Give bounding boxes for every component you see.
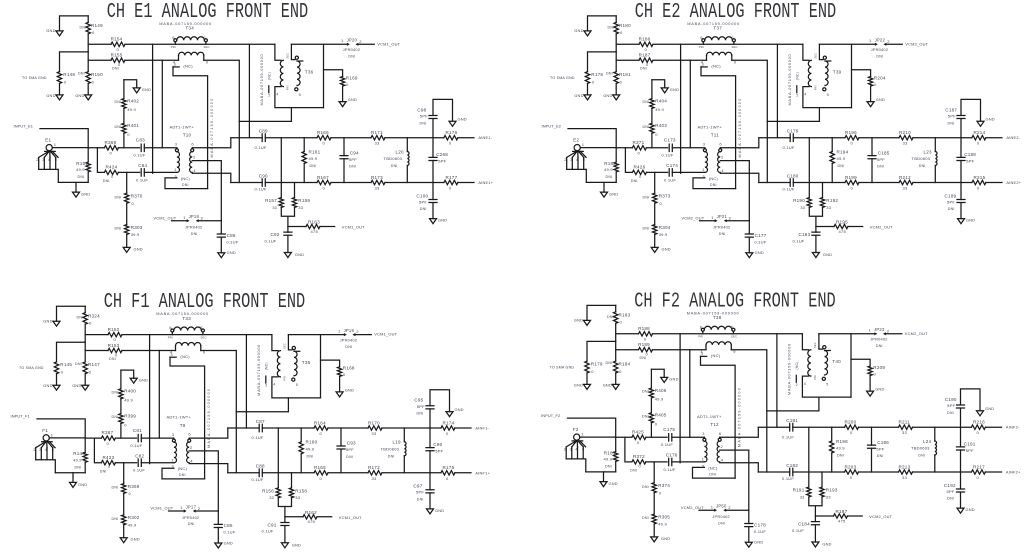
svg-text:0: 0 [111, 175, 113, 179]
svg-text:0.1UF: 0.1UF [226, 239, 238, 244]
svg-text:3: 3 [174, 62, 176, 67]
svg-text:VCM1_OUT: VCM1_OUT [153, 215, 176, 220]
capacitor C97 [429, 473, 431, 490]
svg-text:0.1UF: 0.1UF [664, 177, 676, 182]
wire [354, 334, 371, 336]
svg-text:0: 0 [108, 465, 110, 469]
svg-text:GND: GND [609, 481, 618, 486]
wire [580, 436, 616, 438]
svg-text:VCM1_OUT: VCM1_OUT [374, 332, 397, 337]
jumper JP17 [169, 510, 184, 512]
capacitor C268 [432, 138, 434, 158]
svg-text:INPUT_F1: INPUT_F1 [11, 414, 30, 419]
capacitor C87 [259, 424, 262, 432]
svg-text:R155: R155 [111, 53, 123, 58]
svg-text:DNI: DNI [709, 472, 716, 476]
resistor R203 [845, 470, 859, 474]
wire [767, 410, 819, 412]
svg-text:DNI: DNI [348, 55, 355, 59]
svg-text:T12: T12 [710, 422, 719, 427]
resistor R165 [314, 471, 328, 475]
svg-text:5PF: 5PF [438, 158, 446, 163]
ground [449, 121, 456, 126]
wire [588, 52, 617, 72]
resistor R217 [971, 470, 985, 474]
svg-text:TBD0603: TBD0603 [912, 156, 931, 161]
svg-text:R371: R371 [633, 140, 645, 145]
svg-text:0.1UF: 0.1UF [252, 435, 264, 440]
resistor R167 [317, 180, 331, 184]
capacitor C93 [340, 428, 342, 446]
svg-text:49.9: 49.9 [131, 232, 140, 237]
svg-text:C188: C188 [964, 152, 976, 157]
resistor R191 [808, 427, 810, 487]
wire (bottom rail) [231, 182, 474, 184]
svg-text:GND: GND [574, 93, 583, 98]
svg-text:R214: R214 [974, 130, 986, 135]
svg-text:4: 4 [273, 383, 275, 387]
svg-text:R204: R204 [874, 75, 886, 80]
capacitor C185 [871, 138, 873, 156]
svg-text:R369: R369 [128, 484, 140, 489]
svg-text:R164: R164 [314, 420, 326, 425]
svg-text:0.1UF: 0.1UF [255, 145, 267, 150]
resistor R150 [86, 72, 90, 84]
svg-text:GND: GND [46, 28, 55, 33]
svg-text:PRI: PRI [282, 376, 286, 381]
wire (main bias rail) [653, 43, 803, 45]
svg-text:5PF: 5PF [420, 114, 428, 119]
resistor R146 [84, 438, 86, 452]
wire [672, 171, 705, 173]
wire [672, 147, 705, 149]
svg-text:PRI: PRI [699, 45, 704, 49]
svg-text:0.1UF: 0.1UF [255, 187, 267, 192]
pin 2 stub [796, 86, 798, 93]
svg-text:R303: R303 [131, 225, 143, 230]
svg-text:SEC: SEC [201, 335, 207, 339]
svg-text:0.1UF: 0.1UF [252, 477, 264, 482]
svg-text:VCM1_OUT: VCM1_OUT [339, 515, 362, 520]
svg-text:1: 1 [702, 167, 704, 172]
svg-text:DNI: DNI [179, 473, 186, 477]
wire [52, 147, 88, 149]
wire [616, 59, 706, 61]
wire [49, 437, 85, 439]
svg-text:DNI: DNI [640, 67, 647, 71]
svg-text:DNI: DNI [876, 344, 883, 348]
svg-text:VCM2_OUT: VCM2_OUT [681, 505, 704, 510]
svg-text:R156: R156 [262, 488, 274, 493]
wire (box) [819, 44, 851, 121]
wire [616, 43, 639, 45]
resistor R152 [108, 332, 122, 336]
svg-text:DNI: DNI [182, 183, 189, 187]
svg-text:R175: R175 [443, 465, 455, 470]
wire (bottom rail) [759, 182, 1002, 184]
wire [55, 472, 85, 474]
svg-text:JP19: JP19 [344, 328, 355, 333]
svg-text:2: 2 [193, 155, 195, 160]
svg-text:2: 2 [265, 384, 267, 388]
resistor R185 [615, 437, 617, 451]
svg-text:GND: GND [295, 252, 304, 257]
svg-text:DNI: DNI [877, 165, 884, 169]
svg-text:475: 475 [839, 229, 847, 234]
svg-text:49.9: 49.9 [306, 447, 315, 452]
wire (top rail) [758, 426, 1001, 428]
svg-text:1: 1 [702, 457, 704, 462]
ground [651, 369, 664, 377]
svg-text:AINF1-: AINF1- [475, 426, 489, 431]
wire [616, 349, 706, 351]
svg-text:5: 5 [299, 93, 301, 97]
wire [85, 350, 175, 352]
svg-text:R184: R184 [619, 361, 631, 366]
svg-text:DNI: DNI [608, 25, 615, 29]
svg-text:AINE1+: AINE1+ [478, 180, 493, 185]
svg-text:T37: T37 [713, 26, 722, 31]
capacitor C181 [790, 423, 793, 431]
svg-text:2: 2 [268, 93, 270, 97]
inductor L24 [934, 427, 936, 441]
svg-text:T34: T34 [185, 26, 194, 31]
svg-text:PRI: PRI [168, 335, 173, 339]
svg-text:JPR0402: JPR0402 [712, 514, 730, 519]
svg-text:DNI: DNI [75, 466, 82, 470]
svg-text:5PF: 5PF [947, 403, 955, 408]
svg-text:3: 3 [175, 142, 177, 147]
svg-text:GND: GND [134, 246, 143, 251]
wire (main bias rail) [653, 333, 803, 335]
svg-text:R179: R179 [591, 361, 603, 366]
svg-text:JP23: JP23 [874, 327, 885, 332]
svg-text:GND: GND [823, 252, 832, 257]
wire (pin 4) [192, 173, 231, 182]
svg-text:DNI: DNI [643, 227, 650, 231]
svg-text:R153: R153 [108, 343, 120, 348]
resistor R157 [280, 138, 282, 198]
resistor R155 [111, 58, 125, 62]
svg-text:(NC): (NC) [264, 362, 268, 370]
svg-text:DNI: DNI [642, 516, 649, 520]
svg-text:DNI: DNI [606, 361, 613, 365]
svg-text:DNI: DNI [420, 121, 427, 125]
svg-text:R406: R406 [655, 388, 667, 393]
svg-text:MABA-007159-000000: MABA-007159-000000 [207, 388, 211, 448]
ground [124, 80, 137, 88]
svg-text:C174: C174 [666, 163, 678, 168]
ground [869, 376, 871, 392]
wire (pin 5 NC loop) [162, 468, 205, 479]
pin 3 (NC) stub [701, 355, 707, 357]
svg-text:MABA-007159-000000: MABA-007159-000000 [256, 344, 261, 396]
svg-text:6: 6 [188, 432, 190, 437]
svg-text:C187: C187 [945, 107, 957, 112]
svg-text:475: 475 [311, 229, 319, 234]
svg-text:R176: R176 [446, 130, 458, 135]
ground [586, 373, 588, 384]
svg-text:GND: GND [822, 542, 831, 547]
svg-text:DNI: DNI [349, 165, 356, 169]
svg-text:C178: C178 [754, 522, 766, 527]
wire [357, 43, 374, 45]
svg-text:49.9: 49.9 [604, 457, 613, 462]
resistor R166 [317, 136, 331, 140]
svg-text:0.1UF: 0.1UF [783, 187, 795, 192]
svg-text:GND: GND [574, 382, 583, 387]
svg-text:C182: C182 [786, 463, 798, 468]
svg-text:GND: GND [455, 407, 464, 412]
pin 3 (NC) stub [701, 66, 707, 68]
wire (box) [291, 44, 323, 121]
svg-text:R196: R196 [845, 130, 857, 135]
resistor R401 [123, 109, 125, 124]
svg-text:R171: R171 [371, 130, 383, 135]
svg-text:0: 0 [639, 175, 641, 179]
wire [115, 462, 136, 464]
resistor R187 [639, 58, 653, 62]
right winding [819, 334, 823, 349]
svg-text:49.9: 49.9 [309, 156, 318, 161]
wire [672, 436, 705, 438]
svg-text:C97: C97 [413, 484, 422, 489]
svg-text:GND: GND [603, 382, 612, 387]
svg-text:MABA-007159-000000: MABA-007159-000000 [787, 54, 792, 106]
wire to JP [819, 333, 874, 335]
wire to JP [819, 43, 874, 45]
pin 3 (NC) stub [173, 66, 179, 68]
svg-text:R186: R186 [639, 37, 651, 42]
svg-text:3: 3 [171, 352, 173, 357]
svg-text:JP22: JP22 [875, 38, 886, 43]
capacitor C174 [669, 169, 672, 176]
resistor R304 [654, 203, 656, 224]
svg-text:R216: R216 [973, 420, 985, 425]
wire [625, 437, 632, 462]
wire [204, 60, 240, 182]
wire (main bias rail) [125, 43, 275, 45]
svg-text:(NC): (NC) [181, 176, 191, 181]
svg-text:GND: GND [670, 87, 679, 92]
svg-text:DNI: DNI [115, 195, 122, 199]
svg-text:1: 1 [171, 458, 173, 463]
svg-text:6: 6 [719, 431, 721, 436]
svg-text:R165: R165 [314, 465, 326, 470]
wire (pin 4) [720, 463, 759, 472]
svg-text:DNI: DNI [718, 521, 725, 525]
resistor R192 [822, 183, 824, 198]
capacitor C179 [790, 134, 793, 142]
svg-text:R190: R190 [793, 198, 805, 203]
svg-text:R324: R324 [88, 314, 100, 319]
capacitor C186 [871, 427, 873, 445]
svg-text:2: 2 [190, 445, 192, 450]
svg-text:5PF: 5PF [877, 157, 885, 162]
wire [731, 350, 767, 472]
wire (top rail) [759, 137, 1002, 139]
svg-text:5PF: 5PF [948, 114, 956, 119]
resistor R145 [54, 362, 58, 374]
wire (pin 4) [189, 464, 228, 473]
svg-text:GND: GND [458, 117, 467, 122]
wire [173, 67, 208, 189]
svg-text:49.9: 49.9 [128, 523, 137, 528]
svg-text:475: 475 [308, 519, 316, 524]
resistor R402 [123, 80, 125, 99]
svg-text:R193: R193 [826, 488, 838, 493]
ground [653, 524, 655, 537]
wire [152, 44, 154, 173]
svg-text:DNI: DNI [420, 207, 427, 211]
svg-text:C86: C86 [227, 233, 236, 238]
svg-text:C91: C91 [268, 522, 277, 527]
svg-text:4: 4 [804, 92, 806, 96]
svg-text:3: 3 [702, 431, 704, 436]
wire [586, 471, 616, 473]
wire (box) [288, 335, 320, 412]
wire [616, 436, 667, 438]
svg-text:DNI: DNI [388, 455, 395, 459]
wire (pin 6) [720, 427, 759, 437]
ground [446, 412, 453, 417]
svg-text:DNI: DNI [78, 72, 85, 76]
wire (pin 2 tap) [720, 450, 749, 510]
ground [603, 472, 605, 482]
svg-text:R182: R182 [604, 161, 616, 166]
wire (top rail) [228, 427, 471, 429]
resistor R179 [585, 361, 589, 373]
svg-text:C184: C184 [798, 522, 810, 527]
svg-text:DNI: DNI [877, 454, 884, 458]
svg-text:475: 475 [838, 518, 846, 523]
resistor R147 [83, 362, 87, 374]
resistor R305 [653, 493, 655, 514]
ground [603, 182, 605, 192]
ground [287, 235, 289, 252]
svg-text:AINE2+: AINE2+ [1006, 180, 1021, 185]
svg-text:C96: C96 [433, 442, 442, 447]
wire [586, 181, 616, 183]
wire [85, 334, 108, 336]
svg-text:DNI: DNI [115, 227, 122, 231]
svg-text:R212: R212 [899, 175, 911, 180]
ground [432, 203, 434, 219]
svg-text:GND: GND [131, 537, 140, 542]
wire [625, 148, 632, 173]
svg-text:R151: R151 [76, 161, 88, 166]
svg-text:VCM2_OUT: VCM2_OUT [681, 215, 704, 220]
svg-text:R402: R402 [127, 98, 139, 103]
svg-text:DNI: DNI [642, 485, 649, 489]
svg-text:49.9: 49.9 [73, 458, 82, 463]
svg-text:VCM1_OUT: VCM1_OUT [150, 506, 173, 511]
svg-text:DNI: DNI [188, 522, 195, 526]
svg-text:GND: GND [985, 406, 994, 411]
svg-text:DNI: DNI [391, 164, 398, 168]
svg-text:0.1UF: 0.1UF [754, 239, 766, 244]
ground [121, 370, 134, 378]
ground [960, 203, 962, 219]
svg-text:VCM2_OUT: VCM2_OUT [869, 514, 892, 519]
wire [732, 60, 768, 182]
resistor R371 [632, 146, 646, 150]
svg-text:ADT1-1WT+: ADT1-1WT+ [170, 124, 195, 129]
svg-text:DNI: DNI [918, 454, 925, 458]
svg-text:33: 33 [902, 430, 907, 435]
svg-text:49.9: 49.9 [604, 167, 613, 172]
capacitor C85 [217, 511, 219, 524]
svg-text:TBD0603: TBD0603 [911, 446, 930, 451]
svg-text:R400: R400 [124, 389, 136, 394]
resistor R164 [314, 426, 328, 430]
capacitor C192 [960, 472, 962, 489]
svg-text:R200: R200 [845, 420, 857, 425]
wire [587, 341, 616, 361]
svg-text:(NC): (NC) [180, 354, 190, 359]
svg-text:DNI: DNI [307, 455, 314, 459]
svg-text:49.9: 49.9 [658, 522, 667, 527]
svg-text:SEC: SEC [732, 45, 738, 49]
svg-text:R188: R188 [638, 326, 650, 331]
wire [680, 44, 682, 173]
resistor R367 [101, 436, 115, 440]
ground [654, 235, 656, 248]
capacitor C180 [790, 179, 793, 187]
svg-text:DNI: DNI [607, 315, 614, 319]
svg-text:F2: F2 [573, 427, 579, 432]
svg-text:33: 33 [800, 206, 805, 210]
capacitor C178 [748, 510, 750, 523]
inductor L23 [934, 138, 936, 152]
resistor R189 [639, 348, 653, 352]
capacitor C173 [669, 144, 672, 151]
wire [651, 133, 653, 148]
wire (main bias rail) [122, 334, 272, 336]
svg-text:JPR0402: JPR0402 [182, 515, 200, 520]
resistor R162 [285, 516, 303, 518]
resistor R199 [845, 180, 859, 184]
svg-text:R302: R302 [128, 515, 140, 520]
wire [88, 43, 111, 45]
wire [679, 334, 681, 463]
wire [726, 220, 750, 222]
svg-text:C181: C181 [786, 418, 798, 423]
resistor R148 [57, 72, 61, 84]
svg-text:R194: R194 [837, 149, 849, 154]
svg-text:R167: R167 [317, 175, 329, 180]
wire [85, 437, 136, 439]
wire [120, 424, 122, 439]
svg-text:DNI: DNI [710, 183, 717, 187]
svg-text:R150: R150 [91, 72, 103, 77]
resistor R171 [371, 136, 385, 140]
svg-text:5: 5 [296, 383, 298, 387]
svg-text:49.9: 49.9 [655, 397, 664, 402]
svg-text:DNI: DNI [115, 125, 122, 129]
right winding [291, 44, 295, 59]
svg-text:DNI: DNI [876, 55, 883, 59]
wire [88, 147, 139, 149]
svg-text:R169: R169 [346, 75, 358, 80]
svg-text:E1: E1 [45, 138, 51, 143]
svg-text:GND: GND [345, 388, 354, 393]
resistor R168 [321, 360, 340, 367]
svg-text:DNI: DNI [642, 390, 649, 394]
resistor R426 [632, 170, 646, 174]
resistor R214 [972, 136, 986, 140]
svg-text:R199: R199 [845, 175, 857, 180]
